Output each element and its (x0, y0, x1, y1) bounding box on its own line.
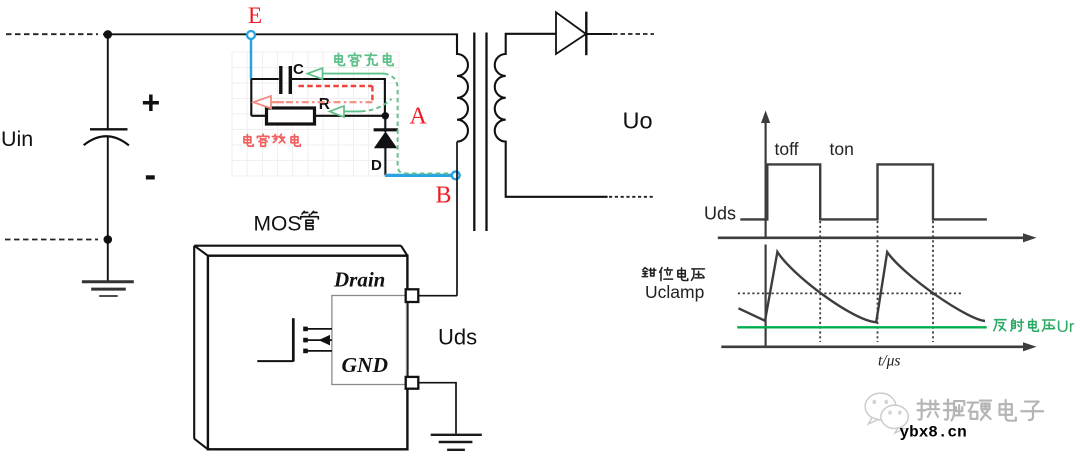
svg-text:Uo: Uo (623, 108, 653, 134)
diode D (snubber, pointing up) (374, 116, 398, 175)
svg-text:B: B (436, 183, 452, 209)
label: Uds (438, 325, 477, 350)
svg-text:Uin: Uin (1, 127, 33, 151)
label: GND pin (342, 353, 389, 377)
label: Uo (623, 108, 653, 134)
logo: gray watermark text (918, 400, 1044, 421)
waveform: dotted vertical gridlines (820, 221, 933, 342)
node B (blue terminal) (452, 172, 460, 180)
node: bottom-left junction dot (104, 235, 113, 244)
capacitor C (snubber) (281, 66, 291, 94)
waveform: upper time axis with arrow (718, 233, 1037, 242)
svg-text:toff: toff (775, 139, 799, 159)
svg-text:Uclamp: Uclamp (645, 282, 704, 302)
label: ton (830, 139, 854, 159)
annotation: capacitor-discharging text (red) (244, 134, 300, 146)
label: clamp voltage (Chinese) (642, 268, 704, 281)
annotation: red dashed discharge path (253, 86, 372, 108)
svg-text:GND: GND (342, 353, 389, 377)
svg-text:-: - (145, 156, 157, 195)
waveform: clamp voltage sawtooth (739, 252, 986, 322)
wire: blue drop from node E (250, 39, 253, 79)
wire: blue segment to node B (385, 174, 451, 177)
waveform: Uds square wave (740, 164, 987, 219)
label: reflected voltage Ur (green) (994, 317, 1075, 336)
waveform: Uclamp dotted level line (738, 292, 961, 294)
label: toff (775, 139, 799, 159)
pin: drain terminal (406, 289, 419, 302)
capacitor Cin (input bulk cap, polarized) (84, 129, 129, 145)
ground: MOSFET source ground (431, 435, 482, 450)
ground: left input ground (82, 282, 134, 296)
label: C (293, 61, 304, 78)
svg-text:Drain: Drain (333, 268, 385, 292)
pin: GND terminal (406, 377, 419, 389)
wire: snubber loop wires (251, 78, 385, 116)
annotation: green branch arrow into R (330, 99, 392, 117)
svg-text:ybx8.cn: ybx8.cn (900, 424, 967, 442)
wire: output diode cathode lead (586, 33, 654, 35)
annotation: green charge arrow into C (308, 68, 385, 79)
diode: output rectifier (556, 12, 586, 56)
waveform: upper vertical axis with arrow (761, 111, 770, 239)
label: node B (436, 183, 452, 209)
node E (blue terminal) (247, 31, 255, 39)
svg-text:D: D (371, 157, 382, 174)
label: + polarity (142, 85, 161, 121)
transformer primary winding (457, 34, 468, 141)
svg-text:t/μs: t/μs (878, 353, 900, 370)
svg-text:E: E (248, 3, 262, 28)
wire: left input branch vertical (107, 34, 109, 281)
wire: GND pin to ground (418, 383, 456, 434)
wire: bottom input rail dashed (5, 239, 98, 241)
label: D (371, 157, 382, 174)
wire: primary bottom / drain wire (418, 142, 457, 296)
label: node A (410, 104, 428, 130)
svg-text:C: C (293, 61, 304, 78)
logo: chat bubbles watermark (865, 393, 908, 433)
annotation: capacitor-charging text (green) (335, 53, 393, 66)
logo: ybx8.cn (900, 424, 967, 442)
wire: top rail from junction to transformer (103, 33, 458, 35)
svg-text:R: R (319, 96, 330, 113)
waveform: lower time axis with arrow (721, 342, 1036, 351)
background grid (decorative) (232, 52, 399, 176)
label: node E (248, 3, 262, 28)
label: Uin (1, 127, 33, 151)
transformer core lines (474, 33, 486, 232)
node: input junction dot (104, 30, 113, 39)
wire: secondary bottom dashed (609, 196, 655, 198)
svg-text:MOS: MOS (254, 213, 302, 236)
svg-text:A: A (410, 104, 428, 130)
svg-text:Uds: Uds (704, 204, 736, 224)
label: Drain pin (333, 268, 385, 292)
transistor Q1 (MOSFET symbol) (257, 318, 332, 361)
annotation: green dashed charge path around diode (384, 74, 451, 174)
MOSFET package 3D box (194, 246, 407, 450)
svg-text:+: + (142, 85, 161, 121)
label: R (319, 96, 330, 113)
node A junction dot (382, 112, 389, 119)
label: t/us axis unit (878, 353, 900, 370)
transformer secondary winding (495, 34, 608, 197)
svg-text:ton: ton (830, 139, 854, 159)
label: - polarity (145, 156, 157, 195)
resistor R (snubber) (267, 108, 315, 124)
wire: top input rail dashed (6, 33, 98, 35)
label: MOS transistor title (254, 211, 319, 235)
waveform: lower vertical axis (764, 245, 766, 347)
label: Uclamp (645, 282, 704, 302)
waveform: green reflected-voltage line (737, 326, 987, 328)
MOSFET inner wiring box (332, 296, 407, 385)
label: Uds (waveform) (704, 204, 736, 224)
svg-text:Uds: Uds (438, 325, 477, 350)
svg-text:Ur: Ur (1057, 317, 1075, 336)
